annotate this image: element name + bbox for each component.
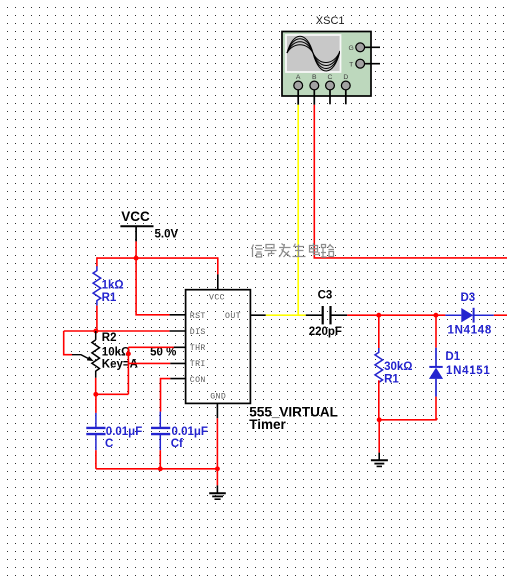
node: THR/TRI vertical dot: [126, 351, 131, 356]
diode D3 1N4148 (blue, pointing right): [445, 292, 493, 337]
svg-text:D1: D1: [445, 351, 460, 363]
svg-text:A: A: [296, 74, 301, 81]
wire: scope B down and right (red): [314, 105, 507, 258]
svg-text:XSC1: XSC1: [316, 15, 345, 27]
capacitor C 0.01uF: [86, 413, 142, 450]
wire: C bottom to rail: [95, 450, 97, 469]
node: Cf rail junction: [158, 466, 163, 471]
node: D1 top junction: [433, 313, 438, 318]
wire: GND pin down to bottom rail and ground (red): [216, 418, 218, 485]
caption "signal generator circuit" (CJK drawn as strokes): [252, 243, 335, 257]
wire: pot bottom down: [95, 378, 97, 395]
svg-text:TRI: TRI: [190, 360, 206, 369]
svg-text:D: D: [343, 74, 348, 81]
wire: D3 to right edge: [494, 314, 507, 316]
scope terminal A: [294, 74, 303, 105]
svg-text:Cf: Cf: [171, 438, 183, 450]
ground (right): [371, 453, 388, 467]
svg-text:5.0V: 5.0V: [155, 229, 179, 241]
capacitor C3 220pF (black, series): [306, 290, 347, 338]
resistor R1 30k (blue zigzag): [375, 315, 413, 420]
wire: VCC drop (red): [135, 241, 137, 258]
svg-text:VCC: VCC: [209, 293, 225, 302]
wire: CON feed: [161, 379, 171, 412]
wire: bottom rail: [96, 468, 217, 470]
svg-text:C: C: [105, 438, 113, 450]
svg-text:10kΩ: 10kΩ: [102, 347, 130, 359]
svg-text:220pF: 220pF: [309, 326, 342, 338]
wire: VCC rail: [97, 257, 218, 259]
wire: DIS rail: [64, 330, 170, 332]
svg-text:C3: C3: [318, 290, 333, 302]
wire: rail down to chip VCC pin: [217, 257, 219, 274]
svg-text:GND: GND: [210, 392, 226, 401]
svg-text:G: G: [349, 45, 354, 52]
svg-text:THR: THR: [190, 344, 206, 353]
svg-text:OUT: OUT: [225, 312, 241, 321]
svg-text:R1: R1: [102, 292, 117, 304]
wire: RST feed from rail: [136, 258, 170, 315]
scope terminal T: [349, 59, 380, 68]
svg-text:50 %: 50 %: [150, 347, 176, 359]
svg-text:T: T: [349, 61, 353, 68]
wire: right bottom rail: [379, 419, 437, 421]
node: gnd rail junction: [215, 466, 220, 471]
scope terminal G: [349, 43, 380, 52]
svg-text:1N4151: 1N4151: [446, 365, 490, 377]
svg-text:C: C: [328, 74, 333, 81]
svg-text:Timer: Timer: [249, 417, 286, 432]
svg-text:1kΩ: 1kΩ: [102, 280, 124, 292]
svg-text:1N4148: 1N4148: [448, 325, 492, 337]
pin stubs (black): [170, 274, 266, 418]
svg-text:R2: R2: [102, 332, 117, 344]
node: DIS junction: [93, 329, 98, 334]
svg-text:VCC: VCC: [121, 209, 150, 224]
svg-text:Key=A: Key=A: [102, 359, 138, 371]
wire: rail to R1 top: [96, 257, 98, 266]
wire: THR/TRI vertical and tees: [96, 347, 174, 394]
VCC power symbol: [120, 209, 178, 241]
node: VCC rail junction: [134, 256, 139, 261]
potentiometer R2 (black zigzag with wiper arrow): [72, 331, 99, 378]
wire: to right ground: [378, 420, 380, 453]
wire: R1 bottom to DIS rail: [96, 306, 98, 331]
R2 labels: [102, 332, 177, 371]
svg-text:D3: D3: [461, 292, 476, 304]
scope terminal B: [310, 74, 319, 105]
svg-text:0.01μF: 0.01μF: [106, 426, 142, 438]
node: pot bottom junction: [93, 392, 98, 397]
node: right rail junction: [377, 417, 382, 422]
node: 30k top junction: [376, 313, 381, 318]
resistor R1 1k (blue zigzag): [93, 266, 124, 305]
scope terminal D: [341, 74, 350, 104]
diode D1 1N4151 (blue, pointing up): [429, 315, 491, 420]
ground (left): [209, 485, 226, 499]
wire: scope A to OUT node (yellow): [266, 105, 306, 315]
svg-text:0.01μF: 0.01μF: [172, 426, 208, 438]
svg-text:DIS: DIS: [190, 328, 206, 337]
svg-text:CON: CON: [190, 376, 206, 385]
svg-text:RST: RST: [190, 312, 206, 321]
svg-text:B: B: [312, 74, 317, 81]
capacitor Cf 0.01uF: [151, 412, 208, 451]
555 timer U1 box: [186, 290, 251, 404]
wire: pot junction down to cap C: [95, 394, 97, 413]
wire: Cf bottom to rail: [159, 450, 161, 469]
wire: OUT node to D3 (red): [347, 314, 445, 316]
svg-text:30kΩ: 30kΩ: [384, 361, 412, 373]
svg-text:R1: R1: [384, 373, 399, 385]
wire: left loop to wiper: [64, 331, 73, 355]
scope terminal C: [326, 74, 335, 104]
oscilloscope XSC1 body: [282, 32, 371, 97]
